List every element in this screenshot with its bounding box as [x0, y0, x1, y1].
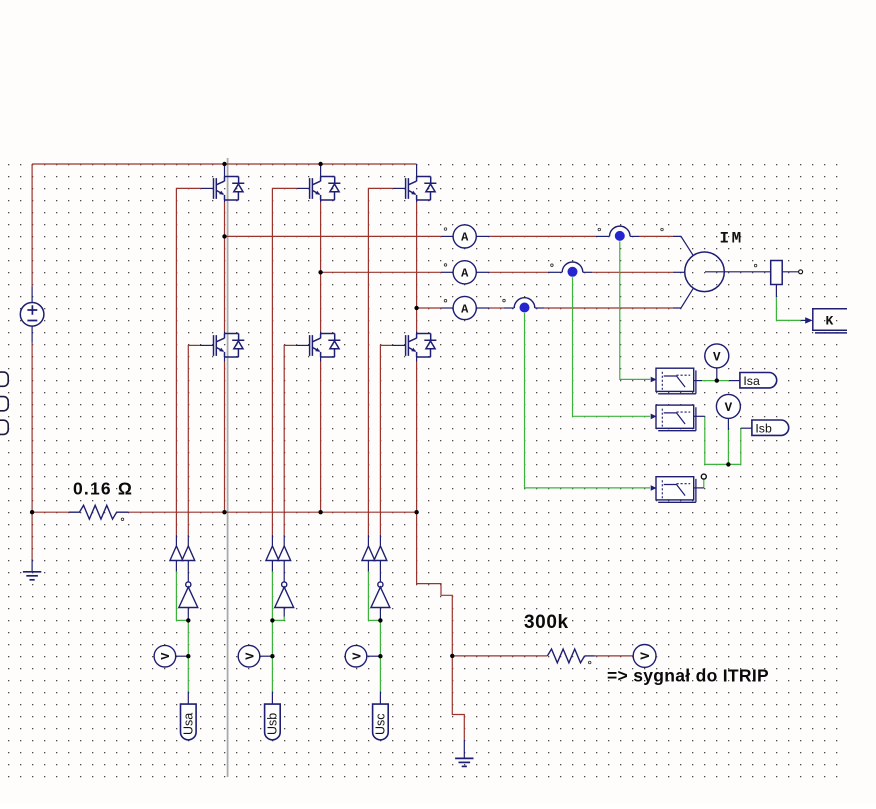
pin markers (unconnected pin dots): [444, 228, 447, 231]
svg-text:0.16 Ω: 0.16 Ω: [73, 479, 133, 499]
wire: probe leads (navy): [595, 235, 609, 237]
wire: V meter stub leg 3 (navy): [366, 655, 380, 657]
node: top rail leg A: [222, 162, 226, 166]
IGBT Q3 (leg B high) with antiparallel diode: [310, 177, 341, 201]
shunt resistor 0.16 Ohm: [69, 505, 129, 519]
svg-text:V: V: [243, 652, 257, 660]
wire: leg 3 mid (collector-emitter link): [416, 202, 418, 331]
wire: leg 1 upper gate: [176, 188, 200, 535]
wire: driver 3 signal drop (green): [379, 620, 381, 656]
gate buffer leg b (lower): [278, 546, 291, 561]
wire: motor shaft: [705, 271, 771, 273]
gate buffer leg a (upper): [170, 546, 183, 561]
svg-text:V: V: [713, 350, 721, 364]
current probe phase B: [562, 262, 583, 272]
wire: leg 2 lower emitter to rail: [320, 362, 322, 513]
wire: leg 2 lower gate: [284, 345, 296, 535]
wire: Isb riser (green): [740, 428, 742, 464]
wire: driver 3 inverter stem (navy): [379, 608, 381, 621]
node: bottom rail leg A: [222, 510, 226, 514]
wire: tag stem leg 2 (navy): [271, 691, 273, 704]
node: driver 1 output: [186, 618, 190, 622]
voltmeter V-Isb: [716, 394, 740, 418]
wire: 300k right stub (navy): [585, 655, 595, 657]
ammeter phase B: [453, 261, 476, 284]
node: driver 2 output: [270, 618, 274, 622]
node: bottom rail leg C / ITRIP tap: [414, 510, 418, 514]
wire: driver 3 left buffer output: [367, 561, 369, 572]
wire: probe C to filter 3 (green): [525, 313, 651, 488]
wire: filter3 output stub (navy): [694, 487, 704, 489]
voltmeter Usb: [238, 645, 260, 667]
svg-text:Usb: Usb: [266, 713, 280, 735]
wire: ITRIP resistor feed: [452, 655, 547, 657]
svg-text:Usc: Usc: [374, 713, 388, 735]
svg-text:Isa: Isa: [743, 374, 760, 388]
wire: V-Isb stem lower (green): [727, 430, 729, 464]
mechanical load block: [771, 261, 783, 285]
left edge tag 1: [0, 372, 8, 386]
inverter leg b: [275, 582, 294, 608]
wire: DC source stems (navy): [31, 286, 33, 302]
wire: driver 3 apex stubs (navy): [367, 535, 369, 546]
wire: ITRIP ground stem (navy): [463, 740, 465, 758]
wire: leg 2 upper gate: [272, 188, 297, 535]
wire: ITRIP staircase from DC- rail: [417, 512, 465, 740]
node: driver 3 V tap: [378, 654, 382, 658]
left edge tag 3: [0, 420, 8, 434]
induction machine IM: [685, 252, 725, 292]
svg-text:A: A: [461, 302, 469, 316]
svg-text:A: A: [461, 231, 469, 245]
wire: probe A to filter 1 (green): [620, 241, 650, 379]
svg-text:300k: 300k: [524, 612, 569, 633]
wire: driver 1 apex stubs (navy): [175, 535, 177, 546]
svg-text:Usa: Usa: [182, 713, 196, 735]
svg-text:K: K: [826, 314, 834, 329]
IGBT Q6 (leg C low) with antiparallel diode: [406, 334, 437, 358]
inverter leg c: [371, 582, 390, 608]
svg-text:Isb: Isb: [755, 421, 772, 435]
IGBT Q1 (leg A high) with antiparallel diode: [214, 177, 245, 201]
wire: tag stem leg 3 (navy): [379, 691, 381, 704]
wire: ground drop from shunt node: [31, 512, 33, 559]
wire: phase A red segments: [225, 235, 442, 237]
current probe phase A: [610, 226, 631, 236]
svg-text:V: V: [350, 652, 364, 660]
block K (speed sensor): [813, 309, 847, 333]
wire: driver 1 signal drop (green): [187, 620, 189, 656]
wire: V-Isb stem (navy): [727, 418, 729, 430]
wire: left DC bus upper: [31, 164, 33, 286]
wire: filter1 output green to Isa node: [702, 380, 729, 382]
node: ITRIP divider tap: [450, 654, 454, 658]
svg-text:A: A: [461, 267, 469, 281]
wire: leg 3 lower emitter to rail: [416, 362, 418, 513]
wire: leg stems around IGBTs (navy): [224, 200, 226, 202]
left edge tag 2: [0, 397, 8, 411]
voltmeter Usc: [345, 645, 367, 667]
wire: driver 1 inverter stem (navy): [187, 608, 189, 621]
tag Isa: [740, 373, 777, 388]
node: driver 3 output: [378, 618, 382, 622]
wire: driver 3 buffer-to-inverter (navy): [379, 561, 381, 582]
wire: driver 1 left buffer output: [175, 561, 177, 572]
ground (ITRIP divider): [455, 758, 473, 766]
wire: driver 2 signal drop (green): [271, 620, 273, 656]
wire: Isb tag lead (navy): [741, 427, 752, 429]
wire: leg stems at top rail: [224, 164, 226, 177]
svg-text:V: V: [639, 652, 653, 660]
svg-text:V: V: [725, 401, 733, 415]
wire: driver 2 inverter stem jog: [283, 608, 285, 617]
tag Usa: [181, 704, 197, 740]
svg-text:=> sygnał do ITRIP: => sygnał do ITRIP: [607, 666, 769, 686]
arrowhead into K: [805, 317, 812, 323]
wire: red link resistor to voltmeter: [595, 655, 634, 657]
shaft terminal: [799, 270, 803, 274]
low-pass filter block F1: [651, 368, 696, 394]
wire: shunt ground stem (navy): [31, 559, 33, 572]
wire: phase C red segments: [417, 307, 441, 309]
ground (shunt): [23, 572, 41, 580]
wire: filter2 output down (green): [705, 416, 741, 464]
wire: filter2 output stub (navy): [694, 415, 705, 417]
node: phase A output: [222, 234, 226, 238]
tag Usb: [265, 704, 281, 740]
voltmeter ITRIP signal: [633, 645, 656, 668]
wire: filter3 output riser (green): [703, 479, 705, 488]
wire: DC+ top rail: [32, 163, 417, 165]
node: Isa junction: [715, 378, 719, 382]
wire: DC- bottom rail: [129, 511, 417, 513]
node: top rail leg B: [318, 162, 322, 166]
gate buffer leg c (upper): [362, 546, 375, 561]
wire: tag stem leg 1 (navy): [187, 691, 189, 704]
DC voltage source E1: [20, 303, 44, 327]
wire: phase B red segments: [321, 271, 441, 273]
wire: leg 1 lower emitter to rail: [224, 362, 226, 513]
wire: V meter stub leg 1 (navy): [175, 655, 188, 657]
sheet boundary line: [227, 158, 229, 777]
wire: leg 1 mid (collector-emitter link): [224, 202, 226, 331]
wire: gate leads (navy): [201, 187, 214, 189]
wire: ammeter leads (navy): [441, 235, 453, 237]
inverter leg a: [179, 582, 198, 608]
node: bottom rail leg B: [318, 510, 322, 514]
wire: V meter stub leg 2 (navy): [259, 655, 272, 657]
wire: load block to terminal: [782, 271, 798, 273]
wire: filter1 output stub (navy): [694, 380, 702, 382]
filter3 open terminal: [701, 474, 706, 479]
svg-text:V: V: [159, 652, 173, 660]
wire: driver 2 left buffer output: [271, 561, 273, 572]
wire: torque output to K (green): [776, 297, 800, 320]
wire: V-Isa stem (navy): [716, 368, 718, 381]
node: phase B output: [318, 270, 322, 274]
wire: driver 1 buffer-to-inverter (navy): [187, 561, 189, 582]
gate buffer leg c (lower): [374, 546, 387, 561]
wire: shunt node to resistor (red): [32, 511, 69, 513]
node: Isb junction: [726, 462, 730, 466]
wire: leg 2 mid (collector-emitter link): [320, 202, 322, 331]
wire: load block bottom drop (navy): [775, 285, 777, 298]
wire: leg 3 upper gate: [368, 188, 393, 535]
voltmeter Usa: [154, 645, 176, 667]
wire: arrow lead into K: [801, 319, 807, 321]
resistor 300k: [547, 649, 584, 663]
ammeter phase C: [453, 296, 476, 319]
low-pass filter block F2: [651, 405, 696, 431]
wire: driver 2 apex stubs (navy): [271, 535, 273, 546]
ammeter phase A: [453, 225, 476, 248]
tag Usc: [373, 704, 389, 740]
svg-text:IM: IM: [720, 230, 744, 248]
voltmeter V-Isa: [705, 344, 729, 368]
wire: driver 2 buffer-to-inverter (navy): [283, 561, 285, 582]
node: phase C output: [414, 306, 418, 310]
gate buffer leg b (upper): [266, 546, 279, 561]
node: bottom rail shunt left: [30, 510, 34, 514]
IGBT Q5 (leg C high) with antiparallel diode: [406, 177, 437, 201]
IGBT Q4 (leg B low) with antiparallel diode: [310, 334, 341, 358]
wire: node to Isa tag (navy): [729, 380, 740, 382]
tag Isb: [752, 420, 789, 435]
wire: leg 3 lower gate: [380, 345, 392, 535]
wire: probe B to filter 2 (green): [573, 277, 651, 416]
low-pass filter block F3: [651, 477, 696, 503]
node: driver 2 V tap: [270, 654, 274, 658]
gate buffer leg a (lower): [182, 546, 195, 561]
wire: motor entry leads (navy): [673, 236, 694, 256]
IGBT Q2 (leg A low) with antiparallel diode: [214, 334, 245, 358]
wire: leg 1 lower gate: [188, 345, 200, 535]
current probe phase C: [514, 298, 535, 308]
node: driver 1 V tap: [186, 654, 190, 658]
wire: left DC bus lower: [31, 343, 33, 513]
